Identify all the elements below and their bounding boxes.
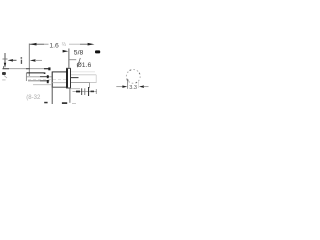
svg-text:1.6: 1.6 — [49, 42, 59, 49]
svg-text:5/8: 5/8 — [74, 50, 84, 57]
svg-text:3.3: 3.3 — [129, 85, 137, 91]
svg-text:(8-32: (8-32 — [26, 95, 41, 101]
